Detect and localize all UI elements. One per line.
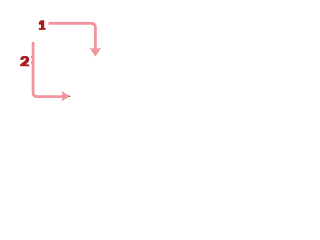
step label 2 [20, 56, 29, 66]
arrowhead 1 (down) [90, 48, 102, 57]
wire arrow 2 (down then right) [33, 42, 63, 97]
flow diagram with two numbered arrows [0, 0, 120, 120]
arrowhead 2 red tip [69, 96, 71, 98]
wire arrow 1 (right then down) [49, 23, 96, 49]
arrowhead 2 (right) [61, 91, 70, 101]
red flecks on wire 2 edge [31, 56, 32, 57]
step label 1 [39, 20, 46, 30]
